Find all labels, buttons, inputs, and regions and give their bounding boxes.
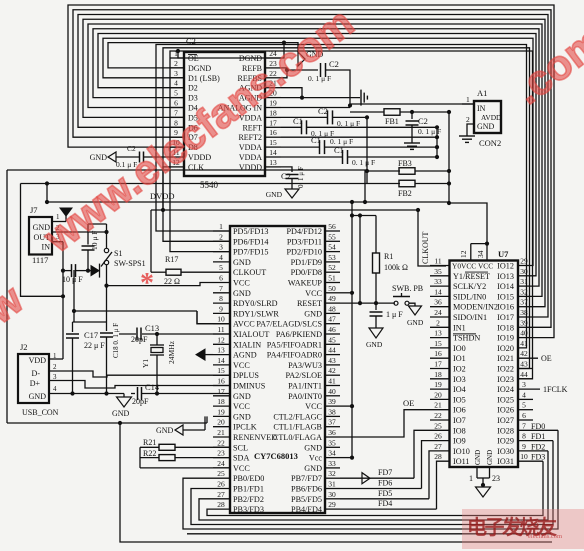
CY7C68013 pin 48 GND (325, 312, 340, 314)
wire bus D7 (5540 pin 9 to U7) (73, 10, 551, 328)
svg-text:IO17: IO17 (497, 313, 514, 322)
U7 pin 14 SIDL/IN0 (430, 295, 450, 297)
svg-text:4: 4 (522, 390, 526, 399)
svg-text:45: 45 (328, 335, 336, 344)
svg-text:GND: GND (233, 412, 251, 421)
svg-text:25: 25 (434, 421, 442, 430)
svg-text:18: 18 (434, 370, 442, 379)
svg-text:PA2/SLOE: PA2/SLOE (285, 371, 322, 380)
svg-text:2: 2 (466, 115, 470, 124)
svg-text:24MHz: 24MHz (167, 340, 176, 364)
svg-text:VCC: VCC (233, 279, 250, 288)
svg-text:20pF: 20pF (132, 397, 149, 406)
switch S1 SW-SPS1 (104, 248, 108, 252)
svg-text:D+: D+ (30, 379, 41, 388)
wire U7 right pin stub row 2 (518, 275, 530, 277)
svg-text:PB5/FD5: PB5/FD5 (291, 495, 322, 504)
svg-text:23: 23 (492, 474, 500, 483)
svg-text:FD2: FD2 (531, 442, 545, 451)
svg-text:GND: GND (366, 340, 383, 349)
svg-text:IO27: IO27 (497, 416, 514, 425)
CY7C68013 pin 12 XIALIN (213, 343, 230, 345)
svg-text:VCC: VCC (305, 289, 322, 298)
svg-text:PB7/FD7: PB7/FD7 (291, 474, 322, 483)
svg-text:13: 13 (269, 158, 277, 167)
svg-text:0. 1 μ F: 0. 1 μ F (352, 158, 375, 167)
wire OE net CY pin 36 to U7 pin 21 (340, 410, 430, 437)
5540 pin 13 VDDD (265, 166, 281, 168)
svg-text:38: 38 (328, 407, 336, 416)
wire 5540 pin 22 REFBS joins REFB (281, 70, 287, 78)
wire 5540 pin 12 CLK riser to CLKOUT net (163, 167, 170, 210)
CY7C68013 pin 20 IPCLK (213, 426, 230, 428)
svg-text:47: 47 (328, 315, 336, 324)
svg-text:DMINUS: DMINUS (233, 382, 266, 391)
wire FD13 net (CY pin 1) across top (156, 45, 527, 348)
svg-text:IO4: IO4 (453, 385, 466, 394)
svg-text:42: 42 (520, 349, 528, 358)
svg-text:1 μ F: 1 μ F (386, 310, 403, 319)
svg-text:Y0VCC VCC: Y0VCC VCC (452, 262, 493, 271)
5540 pin 11 VDDD (170, 156, 184, 158)
svg-text:PD1/FD9: PD1/FD9 (291, 258, 322, 267)
svg-text:GND: GND (486, 450, 494, 465)
wire R21/R22 pullup rail (139, 447, 141, 468)
svg-text:IO7: IO7 (453, 416, 466, 425)
svg-text:Y1: Y1 (141, 359, 150, 368)
capacitor C2 0.1uF at 5540 pin 13 VDDD (281, 167, 292, 172)
svg-text:54: 54 (328, 243, 336, 252)
svg-text:C17: C17 (84, 330, 98, 340)
svg-text:IO24: IO24 (497, 385, 514, 394)
wire U7 VCC pins 12 34 bracket (471, 243, 487, 245)
svg-text:IO8: IO8 (453, 426, 466, 435)
svg-text:PA6/PKIEND: PA6/PKIEND (276, 330, 322, 339)
svg-text:3: 3 (174, 69, 178, 78)
U7 pin 35 Y1/RESET (430, 275, 450, 277)
U7 pin 36 MODEN/IN2 (430, 306, 450, 308)
svg-text:2: 2 (53, 363, 57, 371)
svg-text:R22: R22 (143, 449, 156, 458)
wire S1 to CY VCC (107, 265, 214, 286)
wire bus D8 (5540 pin 10 to U7) (68, 5, 554, 338)
CY7C68013 pin 2 PD6/FD14 (213, 240, 230, 242)
wire VDDA rail vertical (366, 117, 368, 183)
5540 pin 5 D3 (170, 97, 184, 99)
wire bus D4 (5540 pin 6 to U7) (88, 24, 542, 296)
svg-text:1: 1 (219, 222, 223, 231)
CY7C68013 pin 22 SCL (213, 446, 230, 448)
svg-text:22 μ F: 22 μ F (84, 341, 105, 350)
wire DVDD rail (47, 201, 449, 203)
svg-text:R21: R21 (143, 438, 156, 447)
svg-text:FD1: FD1 (531, 432, 545, 441)
svg-text:19: 19 (217, 407, 225, 416)
ground GND below C2 (285, 189, 299, 198)
CY7C68013 pin 42 PA2/SLOE (325, 374, 340, 376)
wire 5540 pin 24 to DGND line (184, 43, 284, 58)
connector A1 CON2 box (474, 101, 501, 133)
svg-text:D1 (LSB): D1 (LSB) (188, 74, 220, 83)
CY7C68013 pin 31 PB6/FD6 (325, 488, 340, 490)
svg-text:MODEN/IN2: MODEN/IN2 (453, 303, 498, 312)
svg-text:18: 18 (269, 108, 277, 117)
svg-text:100k Ω: 100k Ω (384, 263, 408, 272)
svg-text:SCL: SCL (233, 443, 248, 452)
capacitor C17 22uF (73, 270, 75, 322)
svg-text:35: 35 (328, 438, 336, 447)
wire U7 right pin stub row 1 (518, 265, 530, 267)
svg-text:IO20: IO20 (497, 344, 514, 353)
5540 pin 8 D6 (170, 126, 184, 128)
CY7C68013 pin 1 PD5/FD13 (213, 230, 230, 232)
svg-text:C1: C1 (293, 116, 303, 126)
regulator J7 1117 box (29, 217, 52, 255)
svg-text:20: 20 (217, 418, 225, 427)
wire U7 right pin stub row 8 (518, 337, 530, 339)
wire aux rail at left edge (21, 184, 64, 297)
CY7C68013 pin 14 VCC (213, 364, 230, 366)
CY7C68013 pin 47 PA7/ELAGD/SLCS (325, 323, 340, 325)
ground earth (rotated) on AGND (360, 90, 362, 106)
svg-text:3: 3 (219, 243, 223, 252)
capacitor 10uF on OUT (88, 223, 107, 225)
svg-text:GND: GND (156, 426, 174, 435)
svg-text:46: 46 (328, 325, 336, 334)
CY7C68013 pin 16 DMINUS (213, 385, 230, 387)
net FD4 CY pin 29 to U7 IO11 (340, 508, 437, 510)
svg-text:DGND: DGND (188, 64, 211, 73)
svg-text:REFT: REFT (242, 123, 262, 132)
net FD3 at U7 right (518, 460, 543, 462)
5540 pin 3 D1 (LSB) (170, 77, 184, 79)
svg-text:5: 5 (522, 401, 526, 410)
U7 pin 20 IO5 (430, 398, 450, 400)
svg-text:44: 44 (520, 370, 528, 379)
CY7C68013 pin 6 VCC (213, 282, 230, 284)
capacitor C14 20pF (131, 393, 135, 395)
svg-text:TSHDN: TSHDN (453, 334, 480, 343)
svg-text:VCC: VCC (233, 361, 250, 370)
svg-text:S1: S1 (114, 249, 122, 258)
svg-text:IO18: IO18 (497, 323, 514, 332)
CY7C68013 pin 43 PA3/WU3 (325, 364, 340, 366)
svg-text:51: 51 (328, 274, 336, 283)
svg-text:C2: C2 (318, 106, 328, 116)
capacitor C2 0.1uF at FB1 output (411, 112, 413, 119)
wire U7 supply riser (449, 203, 487, 244)
5540 pin 21 AGND (265, 87, 281, 89)
net FD6 CY pin 31 to U7 IO9 (340, 488, 422, 490)
svg-text:GND: GND (477, 122, 495, 131)
svg-text:VDDA: VDDA (239, 143, 262, 152)
5540 pin 17 REFT (265, 126, 281, 128)
svg-text:C13: C13 (145, 323, 159, 333)
svg-text:PA4/FIFOADR0: PA4/FIFOADR0 (267, 351, 322, 360)
net FD7 CY pin 32 to U7 IO8 (340, 477, 414, 479)
svg-text:CTL2/FLAGC: CTL2/FLAGC (273, 412, 322, 421)
wire bus D6 (5540 pin 8 to U7) (78, 15, 548, 318)
svg-text:VDDA: VDDA (239, 153, 262, 162)
CY7C68013 pin 32 PB7/FD7 (325, 477, 340, 479)
svg-text:AGND: AGND (233, 351, 257, 360)
svg-text:IO14: IO14 (497, 282, 514, 291)
wire GND to CY pin 19 (206, 416, 208, 423)
svg-text:20: 20 (434, 390, 442, 399)
svg-text:VCC: VCC (233, 464, 250, 473)
svg-text:27: 27 (217, 490, 225, 499)
svg-text:10 μ F: 10 μ F (62, 275, 83, 284)
CY7C68013 pin 17 GND (213, 395, 230, 397)
svg-text:IO30: IO30 (497, 447, 514, 456)
CY7C68013 pin 46 PA6/PKIEND (325, 333, 340, 335)
svg-text:13: 13 (434, 329, 442, 338)
svg-text:48: 48 (328, 304, 336, 313)
CY7C68013 pin 54 PD2/FD10 (325, 251, 340, 253)
svg-text:31: 31 (520, 277, 528, 286)
svg-text:FB3: FB3 (398, 159, 412, 168)
svg-text:IN: IN (477, 104, 486, 113)
svg-text:IO31: IO31 (497, 457, 514, 466)
svg-text:41: 41 (520, 339, 528, 348)
ground earth below CON2 pin 2 (459, 135, 475, 137)
5540 pin 16 REFT2 (265, 136, 281, 138)
U7 pin 22 IO7 (430, 419, 450, 421)
svg-text:37: 37 (520, 298, 528, 307)
CY7C68013 pin 49 RESET (325, 302, 340, 304)
svg-text:9: 9 (522, 442, 526, 451)
svg-text:4: 4 (174, 79, 178, 88)
svg-text:CY7C68013: CY7C68013 (254, 451, 298, 461)
svg-text:24: 24 (217, 459, 225, 468)
svg-text:Vcc: Vcc (309, 454, 323, 463)
CY7C68013 pin 41 PA1/INT1 (325, 385, 340, 387)
svg-text:53: 53 (328, 253, 336, 262)
svg-text:1: 1 (469, 474, 473, 483)
svg-text:38: 38 (520, 308, 528, 317)
svg-text:36: 36 (434, 298, 442, 307)
svg-text:IO22: IO22 (497, 365, 514, 374)
svg-text:29: 29 (520, 257, 528, 266)
svg-text:16: 16 (434, 349, 442, 358)
wire ground rail y423 (7, 422, 207, 424)
wire 5540 pin 20 AGND to earth (281, 97, 360, 99)
svg-text:IO29: IO29 (497, 437, 514, 446)
svg-text:29: 29 (328, 500, 336, 509)
CY7C68013 pin 21 RENENVED (213, 436, 230, 438)
wire REFT2 pin 16 stub (281, 136, 437, 138)
svg-text:PA5/FIFOADR1: PA5/FIFOADR1 (267, 340, 322, 349)
svg-text:16: 16 (217, 377, 225, 386)
ground earth below C2 (404, 142, 420, 144)
svg-text:IO25: IO25 (497, 395, 514, 404)
svg-text:PB0/ED0: PB0/ED0 (233, 474, 264, 483)
svg-text:VCC: VCC (305, 402, 322, 411)
svg-text:REFT2: REFT2 (238, 133, 262, 142)
memory U7 box (450, 261, 519, 468)
svg-text:RENENVED: RENENVED (233, 433, 277, 442)
CY7C68013 pin 23 SDA (213, 457, 230, 459)
svg-text:50: 50 (328, 284, 336, 293)
wire FD0 bus PB0 (CY pin 25) to U7 (183, 430, 558, 529)
svg-text:WAKEUP: WAKEUP (288, 279, 323, 288)
svg-text:17: 17 (434, 360, 442, 369)
U7 ground pins 1 23 (476, 467, 478, 478)
wire U7 right pin stub row 5 (518, 306, 530, 308)
svg-text:FB1: FB1 (385, 117, 399, 126)
svg-text:5540: 5540 (200, 180, 219, 190)
CY7C68013 pin 37 CTL1/FLAGB (325, 426, 340, 428)
svg-text:IO13: IO13 (497, 272, 514, 281)
U7 pin 17 IO2 (430, 368, 450, 370)
svg-text:A1: A1 (477, 88, 487, 98)
svg-text:3: 3 (53, 373, 57, 381)
svg-text:GND: GND (90, 153, 108, 162)
capacitor C1 0.1uF on VDDA pin 14 (281, 156, 342, 158)
svg-text:41: 41 (328, 377, 336, 386)
net FD5 CY pin 30 to U7 IO10 (340, 498, 429, 500)
svg-text:IO1: IO1 (453, 354, 466, 363)
wire 5540 pin 1 OE riser (178, 51, 184, 58)
svg-text:6: 6 (219, 274, 223, 283)
CY7C68013 pin 44 PA4/FIFOADR0 (325, 354, 340, 356)
wire bus D2 (5540 pin 4 to U7) (98, 34, 536, 276)
wire ANALOG IN (5540 pin 19) to CON2 pin 1 (281, 107, 350, 109)
5540 pin 14 VDDA (265, 156, 281, 158)
svg-text:R17: R17 (165, 255, 178, 264)
svg-text:GND: GND (233, 289, 251, 298)
5540 pin 9 D7 (170, 136, 184, 138)
5540 pin 1 OE (170, 57, 184, 59)
capacitor C1 0.1uF on REFT2 pin 16 / VDDA pin 15 (281, 146, 319, 148)
svg-text:31: 31 (328, 480, 336, 489)
CY7C68013 pin 29 PB4/FD4 (325, 508, 340, 510)
resistor R1 100k (375, 216, 377, 254)
op-amp U? ADC 5540 box (184, 52, 265, 176)
wire 5540 pin 21 AGND (281, 88, 302, 98)
svg-text:28: 28 (434, 452, 442, 461)
svg-text:39: 39 (520, 318, 528, 327)
svg-text:FD0: FD0 (531, 422, 545, 431)
svg-text:7: 7 (219, 284, 223, 293)
svg-text:AVCC: AVCC (233, 320, 255, 329)
svg-text:37: 37 (328, 418, 336, 427)
CY7C68013 pin 33 GND (325, 467, 340, 469)
svg-text:8: 8 (522, 432, 526, 441)
CY7C68013 pin 8 RDY0/SLRD (213, 302, 230, 304)
CY7C68013 pin 52 PD0/FD8 (325, 271, 340, 273)
svg-text:SCLK/Y2: SCLK/Y2 (453, 282, 486, 291)
svg-text:FD4: FD4 (378, 499, 392, 508)
svg-text:12: 12 (217, 335, 225, 344)
svg-text:CTL0/FLAGA: CTL0/FLAGA (273, 433, 322, 442)
wire U7 right pin stub row 3 (518, 285, 530, 287)
svg-text:C2: C2 (281, 171, 291, 181)
svg-text:49: 49 (328, 294, 336, 303)
ground GND below U7 (476, 487, 491, 497)
svg-text:3: 3 (522, 380, 526, 389)
svg-text:IO11: IO11 (453, 457, 470, 466)
wire button to GND flag (409, 303, 415, 306)
U7 pin 15 IO0 (430, 347, 450, 349)
wire bottom ground line (120, 423, 552, 542)
svg-text:43: 43 (328, 356, 336, 365)
CY7C68013 pin 50 VCC (325, 292, 340, 294)
svg-text:32: 32 (520, 287, 528, 296)
svg-text:5: 5 (174, 89, 178, 98)
CY7C68013 pin 55 PD3/FD11 (325, 240, 340, 242)
wire S1 node down to C18 rail (106, 286, 108, 322)
svg-text:23: 23 (217, 449, 225, 458)
svg-text:elecfans.com: elecfans.com (528, 533, 562, 540)
svg-text:GND: GND (304, 464, 322, 473)
svg-text:RDY0/SLRD: RDY0/SLRD (233, 299, 278, 308)
svg-text:15: 15 (434, 339, 442, 348)
microcontroller U? CY7C68013 box (230, 226, 325, 513)
svg-text:17: 17 (217, 387, 225, 396)
svg-text:7: 7 (522, 421, 526, 430)
svg-text:10: 10 (520, 452, 528, 461)
CY7C68013 pin 18 VCC (213, 405, 230, 407)
svg-text:1FCLK: 1FCLK (543, 385, 568, 394)
svg-text:FD7: FD7 (378, 468, 392, 477)
svg-text:IO9: IO9 (453, 437, 466, 446)
svg-text:22 Ω: 22 Ω (164, 277, 180, 286)
svg-text:11: 11 (434, 257, 441, 266)
svg-text:4: 4 (219, 253, 223, 262)
wire FD2 bus PB2 (CY pin 27) to U7 (199, 451, 548, 520)
U7 pin 16 IO1 (430, 357, 450, 359)
wire U7 right pin stub row 4 (518, 295, 530, 297)
5540 pin 23 REFB (265, 67, 281, 69)
CY7C68013 pin 40 PA0/INT0 (325, 395, 340, 397)
svg-text:D-: D- (32, 369, 41, 378)
CY7C68013 pin 7 GND (213, 292, 230, 294)
net FD2 at U7 right (518, 450, 548, 452)
svg-text:RESET: RESET (465, 272, 490, 281)
svg-text:32: 32 (328, 469, 336, 478)
wire FD1 bus PB1 (CY pin 26) to U7 (191, 441, 553, 525)
svg-text:IO0: IO0 (453, 344, 466, 353)
svg-text:FD5: FD5 (378, 489, 392, 498)
crystal Y1 24MHz (156, 334, 158, 345)
U7 pin 21 IO6 (430, 409, 450, 411)
svg-text:C14: C14 (145, 382, 160, 392)
CY7C68013 pin 51 WAKEUP (325, 282, 340, 284)
CY7C68013 pin 9 RDY1/SLWR (213, 312, 230, 314)
svg-text:27: 27 (434, 442, 442, 451)
5540 pin 22 REFBS (265, 77, 281, 79)
resistor R22 (140, 457, 159, 459)
5540 pin 19 ANALOG IN (265, 107, 281, 109)
svg-text:OE: OE (188, 54, 199, 63)
ground GND below USB (123, 394, 125, 398)
svg-text:RESET: RESET (297, 299, 322, 308)
CY7C68013 pin 36 CTL0/FLAGA (325, 436, 340, 438)
CY7C68013 pin 30 PB5/FD5 (325, 498, 340, 500)
svg-text:14: 14 (434, 287, 442, 296)
svg-text:PB1/FD1: PB1/FD1 (233, 485, 264, 494)
ferrite bead FB3 (367, 170, 400, 172)
ferrite bead FB1 (350, 111, 384, 113)
svg-text:IO28: IO28 (497, 426, 514, 435)
svg-text:GND: GND (304, 309, 322, 318)
svg-text:PB3/FD3: PB3/FD3 (233, 505, 264, 514)
svg-text:GND: GND (233, 392, 251, 401)
svg-text:36: 36 (328, 428, 336, 437)
resistor R21 (140, 446, 159, 448)
svg-text:14: 14 (269, 148, 277, 157)
